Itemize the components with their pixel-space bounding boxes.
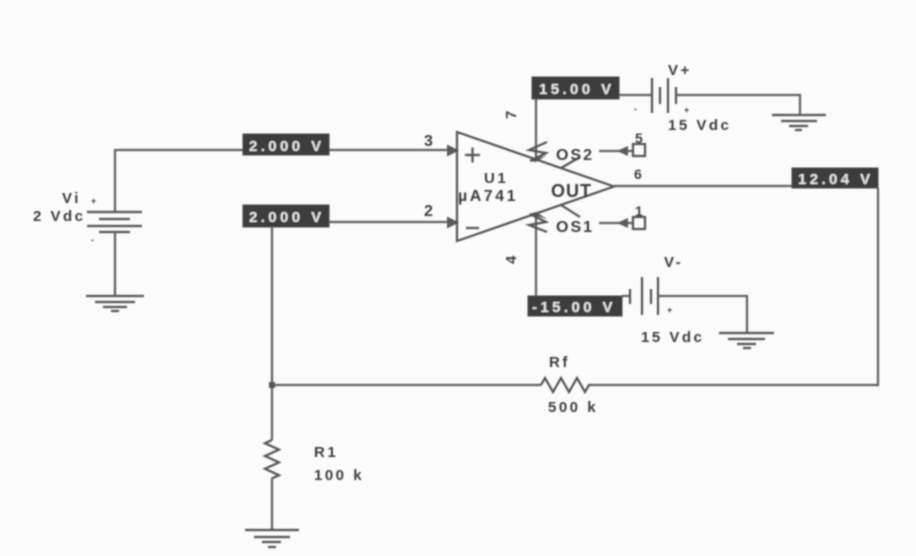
- ground (Vi): [86, 296, 144, 311]
- svg-text:-: -: [91, 235, 94, 245]
- svg-text:2.000 V: 2.000 V: [249, 138, 325, 155]
- svg-text:15 Vdc: 15 Vdc: [668, 117, 731, 134]
- pin number 6: [634, 166, 642, 182]
- label Rf: [549, 354, 570, 371]
- svg-text:V-: V-: [664, 254, 683, 271]
- label V+: [668, 62, 692, 79]
- viewpoint 12.04 V (output): [792, 168, 878, 188]
- svg-text:3: 3: [424, 133, 433, 150]
- pin number 5: [635, 130, 643, 146]
- svg-text:OS1: OS1: [556, 219, 594, 236]
- offset null pin OS2 stub: [561, 157, 580, 168]
- svg-text:+: +: [91, 196, 96, 206]
- svg-text:6: 6: [634, 166, 642, 182]
- wire pin 2: [329, 221, 448, 223]
- svg-text:7: 7: [503, 111, 520, 119]
- battery V-: [630, 277, 672, 315]
- svg-text:+: +: [667, 305, 672, 315]
- pin 2 arrowhead: [447, 217, 459, 229]
- output wire pin 6: [614, 185, 792, 187]
- label V-: [664, 254, 683, 271]
- value label 100 k: [314, 467, 364, 484]
- svg-text:2.000 V: 2.000 V: [249, 209, 325, 226]
- svg-text:OUT: OUT: [551, 181, 592, 201]
- svg-text:R1: R1: [314, 444, 338, 461]
- label OUT: [551, 181, 592, 201]
- node junction (Rf / R1 / pin2 net): [269, 382, 275, 388]
- svg-text:15 Vdc: 15 Vdc: [641, 329, 704, 346]
- label R1: [314, 444, 338, 461]
- op-amp U1 triangle: [457, 132, 614, 241]
- pin 5 lead and arrowhead: [599, 146, 633, 156]
- battery Vi: [87, 196, 142, 245]
- svg-text:-15.00 V: -15.00 V: [532, 299, 616, 316]
- resistor R1: [265, 440, 279, 478]
- pin 3 arrowhead: [447, 145, 459, 157]
- wire Vi to pin 3 node: [115, 150, 448, 211]
- wire battery V+ to ground: [677, 95, 800, 115]
- pin number 1: [635, 203, 643, 219]
- label Vi: [62, 190, 81, 207]
- ground (V-): [719, 333, 774, 348]
- svg-text:1: 1: [635, 203, 643, 219]
- ground (V+): [772, 115, 826, 130]
- wire feedback bottom run: [272, 384, 541, 386]
- svg-text:Vi: Vi: [62, 190, 81, 207]
- pin label 7: [503, 111, 520, 119]
- offset null pin OS1 stub: [561, 205, 580, 217]
- wire pin 7 (V+ supply): [529, 99, 547, 162]
- op-amp plus input mark: [465, 148, 480, 163]
- label U1: [484, 170, 508, 187]
- svg-text:5: 5: [635, 130, 643, 146]
- value label 15 Vdc (V+): [668, 117, 731, 134]
- op-amp minus input mark: [466, 227, 479, 229]
- svg-text:500 k: 500 k: [548, 399, 598, 416]
- label OS1: [556, 219, 594, 236]
- wire viewpoint to battery V+: [619, 94, 651, 96]
- pin 1 open terminal square: [633, 217, 645, 229]
- wire viewpoint to battery V-: [622, 295, 630, 297]
- svg-text:OS2: OS2: [556, 147, 594, 164]
- svg-text:2 Vdc: 2 Vdc: [33, 208, 86, 225]
- svg-text:V+: V+: [668, 62, 692, 79]
- wire battery V- to ground: [658, 296, 747, 333]
- svg-text:12.04 V: 12.04 V: [798, 171, 874, 188]
- pin number 3: [424, 133, 433, 150]
- battery V+: [634, 78, 689, 115]
- value label 15 Vdc (V-): [641, 329, 704, 346]
- svg-text:15.00 V: 15.00 V: [539, 81, 615, 98]
- ground (R1): [245, 530, 299, 547]
- svg-text:+: +: [684, 105, 689, 115]
- svg-text:4: 4: [503, 255, 520, 264]
- pin 1 lead and arrowhead: [599, 218, 633, 228]
- viewpoint 15.00 V (V+ rail): [532, 77, 619, 99]
- pin label 4: [503, 255, 520, 264]
- svg-text:µA741: µA741: [458, 188, 518, 205]
- viewpoint 2.000 V (pin 2 net): [243, 205, 329, 227]
- resistor Rf: [541, 378, 589, 392]
- pin number 2: [424, 203, 433, 220]
- pin 5 open terminal square: [633, 144, 645, 156]
- svg-text:U1: U1: [484, 170, 508, 187]
- value label 2 Vdc: [33, 208, 86, 225]
- wire R1 to ground: [271, 478, 273, 530]
- svg-text:-: -: [634, 104, 637, 114]
- value label 500 k: [548, 399, 598, 416]
- feedback wire right side: [588, 188, 878, 385]
- wire Vi bottom to ground: [114, 232, 116, 296]
- label OS2: [556, 147, 594, 164]
- wire pin 4 (V- supply): [529, 212, 547, 296]
- label uA741: [458, 188, 518, 205]
- svg-text:2: 2: [424, 203, 433, 220]
- svg-text:100 k: 100 k: [314, 467, 364, 484]
- svg-text:Rf: Rf: [549, 354, 570, 371]
- wire inverting node vertical: [271, 227, 273, 440]
- viewpoint -15.00 V (V- rail): [528, 296, 622, 316]
- viewpoint 2.000 V (pin 3 net): [243, 134, 329, 155]
